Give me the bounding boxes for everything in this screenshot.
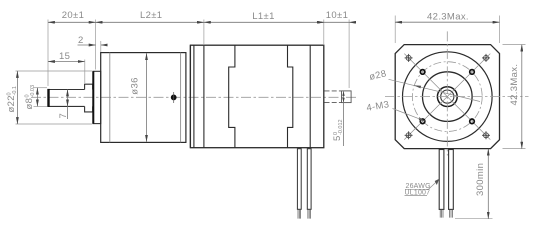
corner screw BL — [405, 131, 413, 139]
front plate square with chamfered corners — [395, 45, 499, 149]
front wire 2 strands — [450, 209, 453, 217]
Ø22 label — [6, 86, 18, 112]
4-M3 leader — [393, 109, 427, 122]
corner screw TL — [405, 54, 413, 62]
svg-text:7: 7 — [58, 113, 69, 119]
output shaft body — [48, 90, 85, 107]
diagonal centerline BL-TR — [404, 54, 490, 140]
M3 hole BL — [420, 119, 425, 124]
front lead wire 2 — [449, 150, 454, 210]
20±1 dimension — [48, 21, 96, 23]
svg-text:ø36: ø36 — [130, 77, 141, 94]
centerline side view — [31, 96, 357, 98]
M3 hole TL — [420, 70, 425, 75]
gearbox housing — [101, 53, 186, 143]
gearbox internal ring line front — [109, 53, 111, 143]
Ø8 dimension — [34, 87, 48, 89]
pilot disc Ø22 — [93, 71, 101, 123]
M3 hole TR — [470, 70, 475, 75]
extension line motor rear — [323, 20, 325, 46]
wire 1 strands — [298, 209, 301, 218]
svg-text:ø22: ø22 — [6, 95, 17, 112]
svg-text:-0.03: -0.03 — [30, 85, 36, 98]
extension line shaft tip — [47, 20, 49, 87]
2 dimension (outside arrows) — [78, 44, 96, 46]
rear shaft end (solid) — [342, 91, 352, 103]
setscrew dot on gearbox — [171, 95, 177, 101]
svg-text:15: 15 — [59, 51, 70, 62]
stator stack boundary front (jogged) — [229, 45, 235, 148]
Ø5 rear shaft dimension — [343, 91, 345, 146]
Ø36 dimension line — [146, 53, 148, 141]
svg-text:-0.012: -0.012 — [338, 119, 344, 135]
L2±1 dimension — [96, 21, 204, 23]
Ø28 leader — [389, 79, 481, 101]
7 flat dimension — [67, 90, 69, 107]
horizontal centerline front view — [385, 96, 529, 98]
gearbox internal ring line rear — [180, 53, 182, 143]
motor body outline — [190, 45, 323, 148]
motor lead wire 1 (side) — [297, 149, 301, 210]
shaft circle Ø8 — [437, 87, 457, 107]
svg-text:2: 2 — [78, 35, 84, 46]
300min dimension — [455, 218, 493, 220]
corner screw TR — [482, 54, 490, 62]
wire label leader — [429, 180, 439, 190]
Ø5 label 5 0/-0.012 — [332, 119, 344, 141]
bolt circle Ø28 (dash-dot) — [412, 62, 482, 132]
svg-text:5: 5 — [332, 135, 343, 141]
shaft inner circle — [441, 90, 454, 103]
corner screw BR — [482, 131, 490, 139]
gearbox circle Ø36 — [403, 52, 493, 142]
svg-text:L1±1: L1±1 — [252, 11, 274, 22]
extension line motor front — [203, 20, 205, 46]
motor rear cap inner line — [309, 45, 311, 148]
svg-text:10±1: 10±1 — [326, 10, 348, 21]
motor front cap inner line — [203, 45, 205, 148]
pilot disc front face bold — [92, 71, 94, 123]
svg-text:ø8: ø8 — [24, 98, 35, 110]
42.3Max top dimension — [394, 16, 396, 44]
stator stack boundary rear (jogged) — [288, 45, 293, 148]
vertical centerline front view — [446, 31, 448, 155]
front lead wire 1 — [439, 150, 444, 210]
10±1 dimension (outside arrows) — [317, 21, 324, 23]
motor front flange line — [193, 45, 195, 148]
front wire 1 strands — [440, 209, 443, 217]
shaft end face (bold) — [47, 89, 49, 107]
svg-text:300min: 300min — [475, 163, 486, 196]
pilot boss circle Ø22 — [423, 72, 473, 122]
svg-text:42.3Max.: 42.3Max. — [509, 64, 520, 106]
rear shaft hidden (dashed) — [325, 91, 342, 103]
extension line pilot face — [95, 20, 97, 70]
15 dimension — [48, 61, 85, 63]
shaft boss step — [85, 84, 93, 112]
42.3Max right dimension — [503, 44, 526, 46]
svg-text:L2±1: L2±1 — [140, 10, 162, 21]
Ø8 label — [24, 85, 36, 110]
L1±1 dimension — [204, 21, 324, 23]
diagonal centerline TL-BR — [404, 54, 490, 140]
M3 hole BR — [470, 119, 475, 124]
svg-text:-0.1: -0.1 — [12, 86, 18, 95]
adapter plate edge — [189, 45, 191, 148]
wire 2 strands — [308, 209, 311, 218]
Ø22 dimension — [16, 70, 93, 72]
extension line rear shaft end — [348, 20, 350, 89]
svg-text:42.3Max.: 42.3Max. — [427, 11, 469, 22]
motor lead wire 2 (side) — [307, 149, 311, 210]
svg-text:20±1: 20±1 — [62, 10, 84, 21]
